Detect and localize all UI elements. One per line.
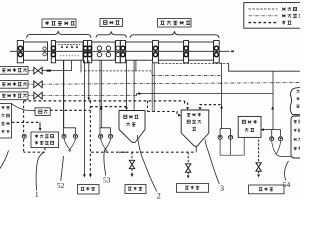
leader 54 (285, 161, 289, 180)
valve V3 (28, 92, 42, 99)
pump P6 (218, 135, 222, 139)
drain valve C drop (258, 140, 260, 163)
junction dot row1 (47, 70, 51, 72)
svg-text:53: 53 (103, 176, 111, 185)
arrow into hopper1 top (125, 107, 128, 110)
pump P7 (229, 135, 233, 139)
pipe row3 dashdot to corner (42, 95, 136, 97)
leader 3 (205, 140, 219, 185)
brush rolls (97, 46, 110, 57)
pump P4 (109, 134, 113, 138)
gas tank bottom drain (243, 137, 245, 155)
arrow row3 corner (139, 92, 142, 95)
svg-text:54: 54 (283, 180, 291, 189)
waste pit box 1 (78, 185, 100, 195)
brace final rinse section (130, 31, 219, 38)
valve A outlet arrow (131, 169, 134, 177)
roll stand R4 (88, 41, 92, 63)
drop pipe from T4 into hopper1 (133, 60, 135, 110)
leader 53 (104, 148, 107, 176)
transfer line to hopper2 (148, 112, 179, 116)
pipe new bold dashed main row (24, 100, 185, 102)
svg-text:52: 52 (57, 181, 65, 190)
stub T2 to row1 (71, 60, 73, 70)
downcomer double pipe (81, 60, 84, 72)
new dashed drop to transfer line (147, 101, 149, 112)
arrow into hopper2 left (178, 114, 181, 117)
drop pipe from T3 (100, 60, 102, 128)
pipe dashdot mid right (152, 75, 222, 77)
svg-text:1: 1 (35, 190, 39, 199)
new dashed vertical from main row to seal pump (23, 101, 25, 152)
up arrow on riser (220, 105, 223, 108)
roll stand R7 (153, 41, 159, 63)
drop to waste pit 1 solid (83, 72, 85, 175)
gas water tank box (238, 116, 261, 137)
pipe row3 solid run (137, 71, 274, 129)
label box front rinse section (42, 19, 76, 28)
arrow waste pit1 a (83, 174, 86, 177)
drop from R4 with arrow (88, 60, 90, 98)
seal water pump (22, 134, 26, 138)
new dashed jog into hopper2 (185, 101, 188, 109)
roll stand R8 (184, 41, 189, 63)
tank T2 (56, 42, 84, 60)
pump P9 (279, 137, 283, 141)
pump pair 3 manifold (220, 129, 231, 135)
new dashed L from collection box (24, 148, 45, 153)
svg-text:2: 2 (157, 191, 161, 200)
bottom new dashed header (91, 151, 196, 153)
pump pair1 discharge cross (64, 139, 76, 153)
roll stand R2 (51, 41, 55, 63)
valve C vertical bowtie (256, 163, 261, 171)
pump pair2 discharge cross (101, 139, 111, 153)
new dashed vertical left of pumps (89, 101, 91, 175)
valve V2 (28, 81, 42, 88)
suction riser final rinse (221, 63, 223, 129)
up arrow on riser right (271, 106, 274, 109)
pump P2 (73, 134, 77, 138)
legend line improved-dashdot (249, 15, 278, 17)
pipe solid right supply (229, 64, 300, 72)
brace front rinse section (27, 31, 92, 38)
roll stand R9 (214, 41, 220, 63)
hopper2 tip drain (195, 146, 197, 152)
arrow into hopper2 top a (186, 107, 189, 110)
waste pit box 4 (249, 185, 285, 194)
waste pit box 3 (177, 184, 209, 193)
legend line new-bold-dash (249, 22, 278, 24)
leader 1 (36, 152, 43, 190)
waste pit box 2 (125, 185, 146, 194)
collection box (31, 132, 59, 148)
legend line improved-dashed (249, 8, 278, 10)
tank T6 (189, 42, 214, 60)
outfall banner shape (290, 88, 302, 115)
hopper2 rinse water recovery tank (181, 110, 209, 146)
strip line through machine (10, 50, 230, 52)
arrow waste pit1 b (89, 174, 92, 177)
valve A vertical bowtie (129, 160, 134, 168)
pipe fine dashed upper right (158, 63, 229, 65)
arrow onto new line (87, 98, 90, 101)
legend text row1 (282, 8, 286, 11)
drain valve B drop (187, 152, 189, 163)
roll stand R3 (83, 41, 87, 63)
curve seal water to filter press (11, 104, 35, 111)
drain valve A drop (131, 152, 133, 160)
arrow feed to gas tank (261, 128, 272, 131)
valve B outlet arrow (187, 172, 190, 178)
pump P3 (99, 134, 103, 138)
drop pipe from T2 left (63, 60, 65, 128)
pump pair 2 manifold (100, 128, 111, 135)
new dashed branch to hopper1 (90, 106, 126, 108)
valve V1 (28, 67, 42, 74)
roll stand R5 open rolls (116, 41, 121, 63)
leader curve far left (0, 151, 9, 169)
roll stand R1 (17, 41, 23, 63)
pipe seal water to collection box (12, 121, 40, 123)
pump pair3 discharge (220, 140, 244, 156)
leader 2 (137, 135, 157, 192)
legend text row2 (282, 14, 286, 17)
pipe row2 dashdot (42, 83, 300, 85)
legend box (244, 3, 305, 29)
guide rolls in T1 (43, 47, 46, 56)
junction dot (100, 108, 102, 110)
legend text row3 (282, 21, 285, 25)
pump P1 (62, 134, 66, 138)
arrow into hopper2 top b (199, 107, 202, 110)
pump pair 1 manifold (64, 128, 76, 135)
industrial water box 1 (0, 66, 28, 74)
industrial water box 2 (0, 80, 28, 88)
valve B vertical bowtie (186, 164, 191, 172)
label box brush section (100, 19, 123, 27)
pipe filter-press output dashed (50, 109, 90, 111)
pump pair4 discharge merge (272, 141, 291, 157)
brace brush section (96, 31, 127, 37)
drain pipe from R7 stand double line (152, 63, 154, 112)
strip end mark (231, 50, 234, 52)
label box final rinse section (158, 19, 192, 28)
tank T1 (24, 42, 48, 60)
valve C outlet arrow (257, 171, 260, 177)
tank T5 (158, 42, 183, 60)
spray header in T2 (59, 45, 81, 56)
pipe row1 fine dashed (42, 70, 71, 72)
new dashed second entry hopper2 (200, 105, 221, 109)
svg-text:3: 3 (220, 184, 224, 193)
seal water source box (0, 104, 12, 139)
right treatment box (291, 116, 304, 158)
leader 52 (61, 156, 64, 181)
corner down into collection box (39, 122, 41, 128)
pump P8 (270, 137, 274, 141)
stub T4 to row1 (135, 60, 137, 71)
filter press box (35, 108, 50, 116)
tank T3 brush tank (92, 42, 116, 60)
header solid stub (119, 151, 128, 153)
industrial water box 3 (0, 92, 28, 100)
hopper1 brush circulation tank (119, 111, 145, 143)
pump pair 4 manifold (272, 130, 281, 136)
tank T4 (126, 42, 153, 60)
roll stand R6 (120, 41, 125, 63)
